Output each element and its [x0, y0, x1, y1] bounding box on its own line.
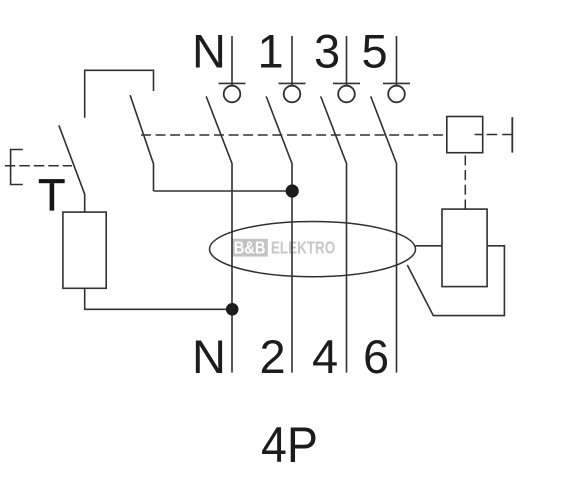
svg-text:4: 4	[312, 330, 338, 383]
wire: resistor to neutral	[85, 288, 233, 309]
wire: relay right loop to toroid	[407, 246, 504, 316]
svg-text:5: 5	[362, 24, 388, 77]
svg-text:1: 1	[258, 24, 284, 77]
dashed link actuator to terminal	[487, 134, 512, 136]
current transformer toroid	[210, 222, 416, 277]
wire: toroid to relay left	[416, 245, 443, 247]
node B junction on N	[226, 303, 239, 316]
mechanical linkage dashed line	[141, 134, 447, 136]
actuator square	[447, 117, 483, 153]
svg-text:4P: 4P	[261, 417, 318, 473]
svg-text:B&B: B&B	[234, 238, 266, 258]
node A junction on L1	[286, 184, 299, 197]
svg-text:6: 6	[363, 330, 389, 383]
watermark	[232, 238, 336, 258]
switch contact pole 1 and wire down	[266, 96, 292, 372]
dashed link actuator to trip relay	[464, 155, 466, 208]
svg-text:N: N	[192, 330, 226, 383]
terminal 1: lead, bar, circle	[279, 36, 306, 102]
svg-text:N: N	[192, 24, 226, 77]
svg-text:ELEKTRO: ELEKTRO	[271, 238, 335, 258]
dash inside actuator square	[475, 134, 483, 136]
wire: aux switch to L1	[154, 190, 293, 192]
test button actuator dashed link	[5, 165, 72, 167]
switch contact pole 3 and wire down	[321, 96, 347, 372]
trip relay coil	[442, 209, 487, 287]
switch contact pole 5 and wire down	[371, 96, 397, 372]
test button symbol	[11, 150, 23, 185]
label T	[39, 179, 65, 211]
switch contact pole N and wire down	[206, 96, 232, 372]
manual operator tick	[511, 117, 513, 152]
terminal 5: lead, bar, circle	[383, 36, 410, 102]
wire: top-left bracket	[85, 70, 154, 118]
svg-text:2: 2	[260, 330, 286, 383]
auxiliary test switch contact	[130, 95, 153, 191]
test switch contact	[59, 125, 85, 212]
terminal N: lead, bar, circle	[219, 36, 246, 102]
resistor R (test resistor)	[63, 212, 106, 288]
svg-text:3: 3	[314, 24, 340, 77]
terminal 3: lead, bar, circle	[333, 36, 360, 102]
